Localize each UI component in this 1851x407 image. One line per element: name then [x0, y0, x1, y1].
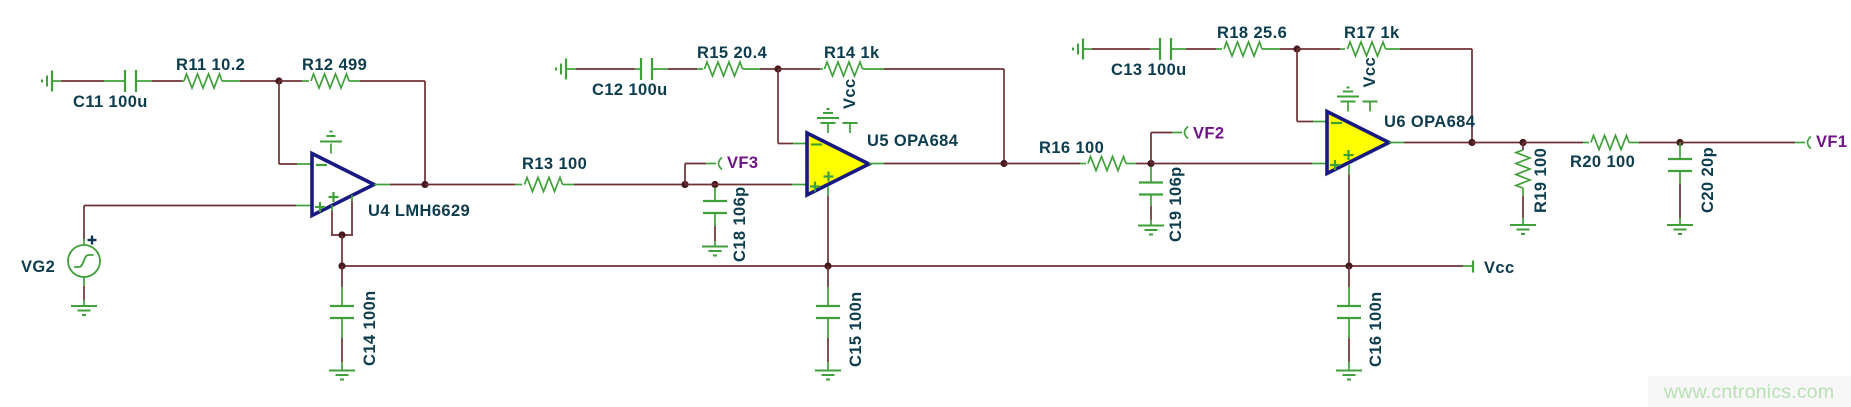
svg-text:U4 LMH6629: U4 LMH6629 — [368, 202, 470, 220]
svg-text:Vcc: Vcc — [1484, 259, 1515, 277]
svg-text:R14 1k: R14 1k — [824, 44, 880, 62]
svg-text:C14 100n: C14 100n — [361, 290, 379, 366]
svg-text:R15 20.4: R15 20.4 — [697, 44, 768, 62]
svg-text:U6 OPA684: U6 OPA684 — [1384, 113, 1476, 131]
svg-text:C18 106p: C18 106p — [731, 186, 749, 262]
svg-text:U5 OPA684: U5 OPA684 — [867, 132, 959, 150]
svg-text:C19 106p: C19 106p — [1167, 166, 1185, 242]
svg-text:R13 100: R13 100 — [522, 155, 587, 173]
svg-text:C11 100u: C11 100u — [73, 93, 148, 111]
svg-text:C16 100n: C16 100n — [1367, 291, 1385, 367]
svg-text:C12 100u: C12 100u — [592, 81, 668, 99]
svg-text:R18 25.6: R18 25.6 — [1217, 24, 1287, 42]
svg-text:R11 10.2: R11 10.2 — [176, 56, 245, 74]
svg-text:Vcc: Vcc — [1361, 57, 1379, 88]
svg-text:Vcc: Vcc — [841, 78, 859, 109]
svg-text:C15 100n: C15 100n — [847, 291, 865, 367]
svg-text:R20 100: R20 100 — [1570, 153, 1635, 171]
svg-text:R19 100: R19 100 — [1532, 148, 1550, 213]
svg-text:C20 20p: C20 20p — [1699, 147, 1717, 213]
svg-text:www.cntronics.com: www.cntronics.com — [1663, 381, 1834, 403]
svg-text:R16 100: R16 100 — [1039, 139, 1104, 157]
svg-text:VF1: VF1 — [1816, 133, 1847, 151]
svg-text:VF2: VF2 — [1193, 125, 1224, 143]
svg-text:VG2: VG2 — [21, 258, 55, 276]
svg-text:R17 1k: R17 1k — [1344, 24, 1400, 42]
svg-text:C13 100u: C13 100u — [1111, 61, 1187, 79]
svg-text:R12 499: R12 499 — [302, 56, 367, 74]
svg-text:VF3: VF3 — [727, 154, 758, 172]
